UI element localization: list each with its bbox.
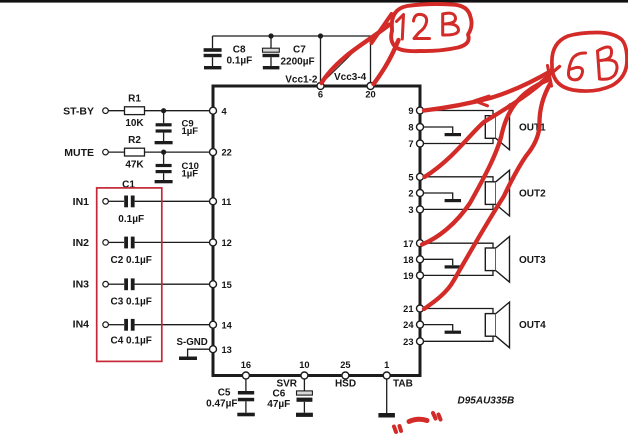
- capacitor C10: [156, 152, 199, 180]
- svg-text:19: 19: [403, 271, 413, 281]
- ground (pin 18): [445, 265, 461, 268]
- speaker OUT4: [485, 302, 509, 348]
- wire rail to pin 6: [320, 36, 322, 82]
- svg-text:10K: 10K: [125, 118, 144, 129]
- svg-text:IN2: IN2: [73, 237, 90, 249]
- junction R2/C10: [161, 150, 166, 155]
- terminal IN4: [73, 318, 109, 330]
- speaker OUT2: [485, 170, 509, 216]
- svg-text:C2 0.1µF: C2 0.1µF: [111, 255, 152, 266]
- svg-text:IN1: IN1: [73, 196, 90, 208]
- wire pin 17 / pin 19 to speaker OUT3: [424, 243, 494, 275]
- svg-text:25: 25: [340, 360, 350, 370]
- wire TAB to ground: [386, 379, 388, 413]
- annotation line 6V to pin 9: [424, 71, 551, 111]
- pin 21: [403, 304, 423, 314]
- svg-text:C4 0.1µF: C4 0.1µF: [111, 335, 152, 346]
- svg-text:6: 6: [318, 90, 323, 100]
- pin 14: [210, 320, 233, 330]
- svg-text:11: 11: [222, 197, 232, 207]
- annotation 6V blob: [552, 33, 627, 92]
- svg-text:1µF: 1µF: [182, 168, 199, 179]
- node HSD: [335, 379, 356, 390]
- wire pin 18 to ground: [424, 259, 453, 265]
- speaker OUT3: [485, 237, 509, 283]
- svg-text:24: 24: [403, 320, 414, 330]
- terminal IN3: [73, 279, 109, 291]
- svg-text:IN4: IN4: [73, 318, 90, 330]
- svg-text:47µF: 47µF: [267, 399, 290, 410]
- annotation arrow on line to pin 9: [475, 96, 490, 106]
- wire R1 to pin 4: [145, 110, 210, 112]
- svg-text:C8: C8: [233, 45, 246, 56]
- ground S-GND: [179, 357, 197, 361]
- pin 7: [408, 139, 423, 149]
- svg-text:C6: C6: [273, 389, 286, 400]
- node OUT3: [519, 255, 546, 266]
- svg-text:7: 7: [408, 139, 413, 149]
- wire C3 to pin 15: [135, 283, 210, 285]
- svg-text:21: 21: [403, 304, 413, 314]
- wire pin 8 to ground: [424, 127, 453, 133]
- svg-text:3: 3: [408, 205, 413, 215]
- pin 16: [241, 360, 251, 379]
- capacitor C3: [108, 278, 151, 307]
- svg-text:2: 2: [408, 189, 413, 199]
- svg-text:22: 22: [222, 148, 232, 158]
- svg-text:47K: 47K: [125, 160, 144, 171]
- capacitor C7: [263, 36, 315, 68]
- node OUT1: [519, 123, 546, 134]
- pin 13: [210, 345, 232, 355]
- pin 12: [210, 238, 232, 248]
- svg-text:4: 4: [222, 106, 228, 116]
- annotation line 6V to pin 21: [424, 84, 550, 309]
- ground (C6): [296, 413, 313, 417]
- pin 3: [408, 205, 423, 215]
- pin 17: [403, 239, 423, 249]
- terminal IN2: [73, 237, 109, 249]
- svg-text:10: 10: [299, 360, 309, 370]
- node Vcc1-2: [285, 75, 318, 86]
- pin 8: [408, 123, 423, 133]
- pin 20: [365, 83, 375, 100]
- svg-text:1µF: 1µF: [182, 126, 199, 137]
- ground (C10): [155, 180, 173, 183]
- capacitor C9: [156, 111, 199, 141]
- ground (pin 2): [445, 199, 461, 202]
- capacitor C8: [204, 36, 253, 67]
- capacitor C5: [206, 379, 254, 413]
- wire MUTE to R2: [108, 151, 124, 153]
- resistor R2: [125, 135, 145, 171]
- ground (C8): [204, 66, 221, 69]
- wire pin 9 / pin 7 to speaker OUT1: [424, 111, 494, 144]
- svg-text:18: 18: [403, 255, 413, 265]
- pin 4: [210, 106, 228, 116]
- svg-text:0.1µF: 0.1µF: [227, 56, 253, 67]
- svg-text:9: 9: [408, 106, 413, 116]
- junction C7 top: [268, 33, 273, 38]
- IC U1 body: [213, 86, 420, 376]
- annotation text 6В: [568, 47, 617, 80]
- svg-text:0.1µF: 0.1µF: [118, 214, 144, 225]
- terminal ST-BY: [63, 106, 108, 118]
- svg-text:IN3: IN3: [73, 279, 90, 291]
- svg-text:R1: R1: [128, 94, 141, 105]
- svg-text:13: 13: [222, 345, 232, 355]
- pin 10 SVR: [299, 360, 309, 379]
- wire C4 to pin 14: [135, 324, 210, 326]
- svg-text:C5: C5: [218, 388, 231, 399]
- pencil line near pin 6: [326, 35, 377, 80]
- annotation line 6V to pin 17: [422, 80, 548, 245]
- annotation text 12В: [397, 13, 459, 39]
- node TAB: [393, 379, 413, 390]
- svg-text:20: 20: [365, 90, 375, 100]
- svg-text:16: 16: [241, 360, 251, 370]
- annotation line 12V to pin 6: [322, 25, 390, 84]
- ground (TAB): [378, 413, 395, 418]
- pin 23: [403, 337, 423, 347]
- red annotation box around C1-C4: [97, 188, 162, 362]
- annotation line 12V to pin 20: [374, 40, 399, 84]
- svg-text:12: 12: [222, 238, 232, 248]
- terminal MUTE: [64, 147, 108, 159]
- wire ST-BY to R1: [108, 110, 124, 112]
- svg-text:OUT2: OUT2: [519, 189, 546, 200]
- ground (C5): [237, 413, 255, 417]
- svg-text:C3 0.1µF: C3 0.1µF: [111, 297, 152, 308]
- svg-text:0.47µF: 0.47µF: [206, 399, 237, 410]
- wire pin 5 / pin 3 to speaker OUT2: [424, 177, 494, 210]
- annotation scribbles bottom right: [394, 413, 441, 432]
- svg-text:ST-BY: ST-BY: [63, 106, 94, 118]
- svg-text:D95AU335B: D95AU335B: [458, 396, 515, 407]
- node SVR: [276, 379, 297, 390]
- pin 11: [210, 197, 232, 207]
- capacitor C4: [108, 319, 151, 346]
- ground (C9): [155, 141, 173, 144]
- pin 2: [408, 189, 423, 199]
- pin 24: [403, 320, 423, 330]
- wire pin 2 to ground: [424, 193, 453, 199]
- terminal IN1: [73, 196, 109, 208]
- capacitor C2: [108, 237, 151, 267]
- annotation cross stroke near 6V blob: [541, 66, 560, 87]
- svg-text:15: 15: [222, 280, 232, 290]
- svg-text:5: 5: [408, 172, 413, 182]
- capacitor C6: [267, 379, 312, 413]
- svg-text:Vcc3-4: Vcc3-4: [334, 72, 367, 83]
- pin 18: [403, 255, 423, 265]
- ground (C7): [263, 66, 280, 69]
- pin 6: [317, 83, 324, 100]
- svg-text:C7: C7: [293, 45, 306, 56]
- node Vcc3-4: [334, 72, 367, 83]
- svg-text:HSD: HSD: [335, 379, 356, 390]
- svg-text:MUTE: MUTE: [64, 147, 94, 159]
- node OUT2: [519, 189, 546, 200]
- ground (pin 8): [445, 133, 461, 136]
- wire pin 24 to ground: [424, 325, 453, 331]
- svg-text:S-GND: S-GND: [177, 337, 208, 348]
- svg-text:2200µF: 2200µF: [281, 57, 315, 68]
- capacitor C1: [108, 179, 144, 225]
- svg-text:8: 8: [408, 123, 413, 133]
- label D95AU335B: [458, 396, 515, 407]
- pin 19: [403, 271, 423, 281]
- svg-text:R2: R2: [128, 135, 141, 146]
- pin 5: [408, 172, 423, 182]
- annotation cross stroke near 12V blob: [372, 14, 392, 43]
- svg-text:OUT1: OUT1: [519, 123, 546, 134]
- wire C2 to pin 12: [135, 241, 210, 243]
- svg-text:23: 23: [403, 337, 413, 347]
- junction Vcc rail / pin 6: [318, 33, 323, 38]
- wire pin 21 / pin 23 to speaker OUT4: [424, 309, 494, 342]
- pin 9: [408, 106, 423, 116]
- wire rail to pin 20: [370, 36, 372, 82]
- wire pin 13 to S-GND: [188, 349, 210, 356]
- svg-text:14: 14: [222, 320, 233, 330]
- pin 22: [210, 148, 232, 158]
- svg-text:OUT4: OUT4: [519, 320, 546, 331]
- wire C1 to pin 11: [135, 200, 210, 202]
- junction R1/C9: [161, 108, 166, 113]
- pin 15: [210, 280, 232, 290]
- pin 25 HSD: [340, 360, 350, 379]
- pin 1 TAB: [383, 360, 390, 379]
- wire R2 to pin 22: [145, 151, 210, 153]
- svg-text:TAB: TAB: [393, 379, 413, 390]
- speaker OUT1: [485, 104, 509, 150]
- resistor R1: [125, 94, 145, 130]
- ground (pin 24): [445, 331, 461, 334]
- wire Vcc supply rail: [213, 35, 371, 37]
- annotation 12V blob: [391, 4, 471, 51]
- node OUT4: [519, 320, 546, 331]
- svg-text:1: 1: [384, 360, 389, 370]
- node S-GND: [177, 337, 208, 348]
- annotation line 6V to pin 5: [425, 76, 550, 177]
- svg-text:OUT3: OUT3: [519, 255, 546, 266]
- svg-text:Vcc1-2: Vcc1-2: [285, 75, 318, 86]
- svg-text:17: 17: [403, 239, 413, 249]
